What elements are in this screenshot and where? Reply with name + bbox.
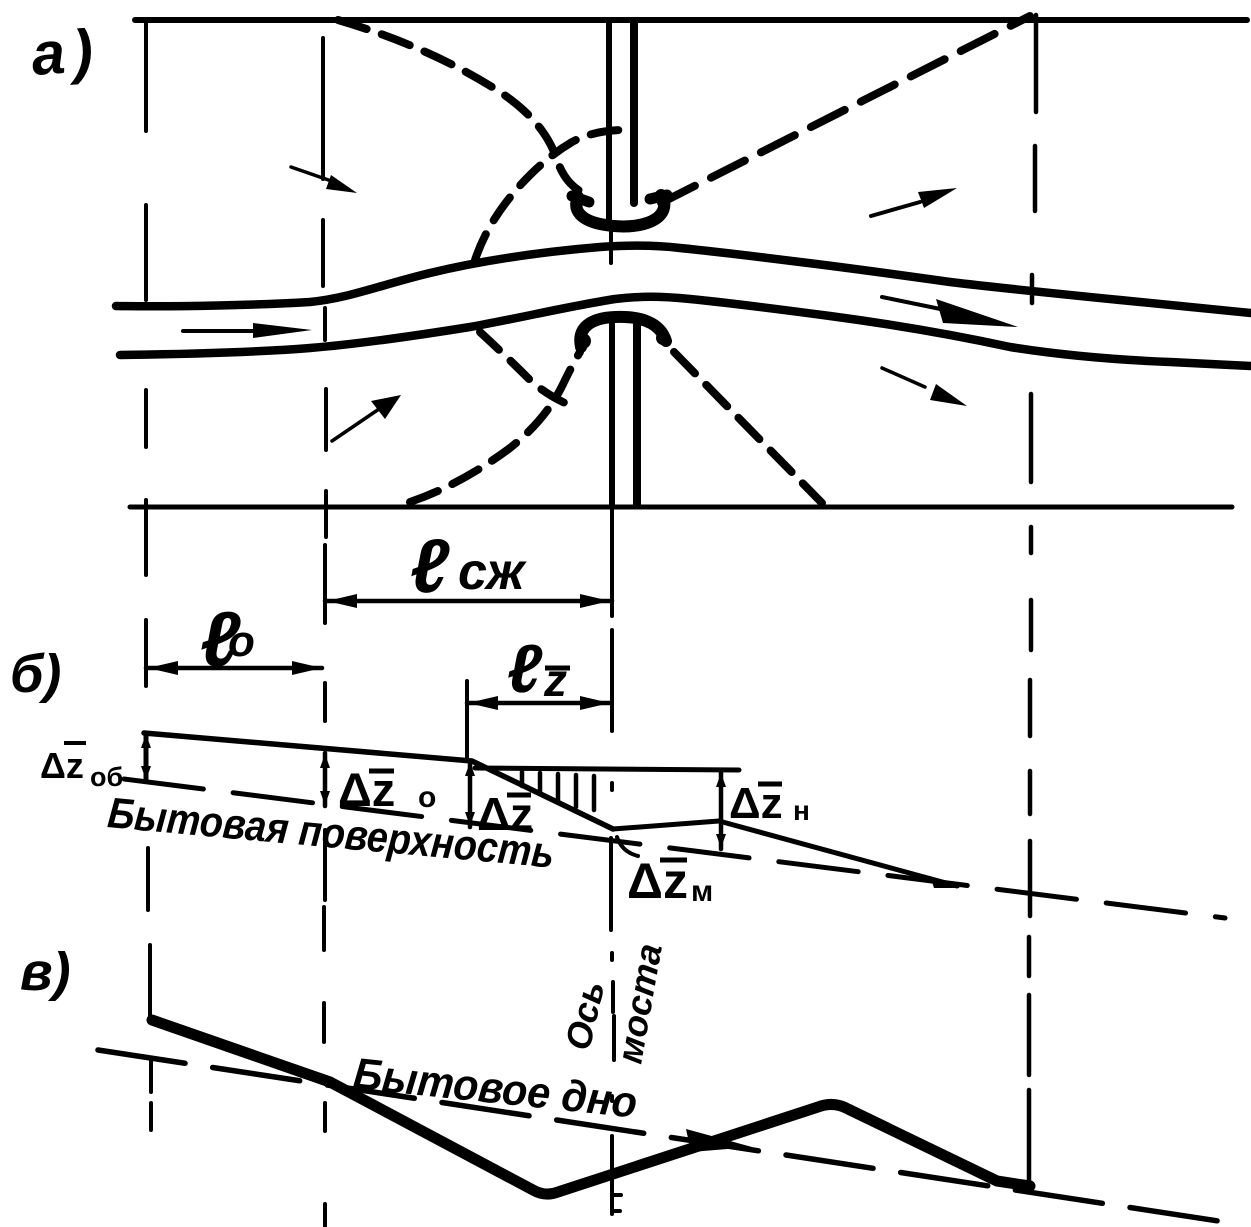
svg-text:н: н [793, 795, 810, 826]
svg-text:Δz: Δz [40, 745, 84, 786]
svg-text:ℓ: ℓ [507, 631, 543, 707]
svg-text:а): а) [29, 16, 103, 88]
svg-text:б): б) [10, 644, 61, 704]
svg-text:о: о [418, 781, 436, 814]
svg-text:ℓ: ℓ [410, 524, 450, 609]
svg-text:м: м [691, 875, 713, 908]
svg-text:о: о [228, 617, 255, 666]
svg-text:в): в) [20, 942, 71, 1002]
svg-text:об: об [90, 762, 123, 792]
svg-text:сж: сж [458, 543, 527, 601]
svg-text:z: z [543, 654, 567, 706]
